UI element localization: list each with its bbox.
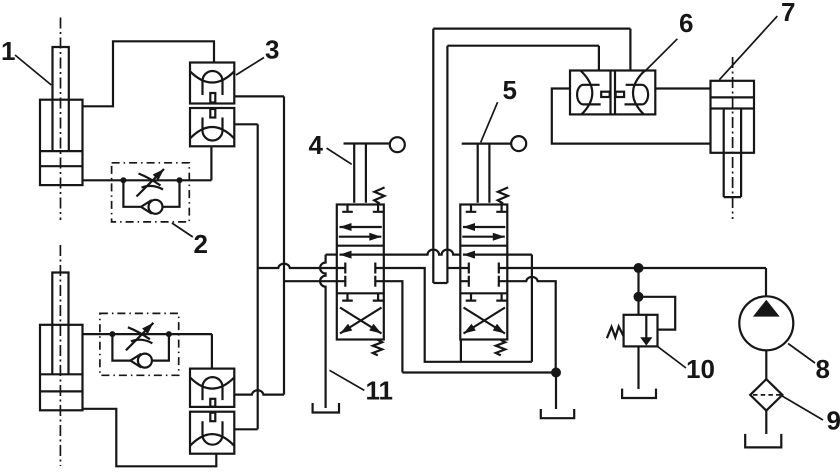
- tank relief: [622, 389, 656, 398]
- valve 5 bottom spring: [496, 340, 505, 356]
- valve 5 middle box blocked port T marks: [460, 263, 507, 287]
- wire valve5 lower right stub with hop: [507, 277, 555, 373]
- valve 4 bottom box blocked port T marks: [342, 293, 383, 300]
- valve 5 top box blocked port T marks: [466, 205, 507, 212]
- pilot operated check valve block 3b lower box: [190, 412, 234, 454]
- svg-text:8: 8: [816, 354, 830, 384]
- supply line valve5 to pump: [507, 267, 766, 269]
- leader line label 11: [330, 370, 365, 390]
- wire manifold to center tank: [555, 373, 557, 410]
- pilot operated check valve block 3 lower box: [190, 108, 234, 146]
- svg-text:2: 2: [194, 229, 208, 259]
- wire to block 3b top port: [211, 334, 213, 369]
- leader line label 6: [644, 39, 677, 72]
- svg-text:5: 5: [503, 75, 517, 105]
- wire block3 lower right port to vertical A: [234, 123, 257, 125]
- flow control valve 2 dashed enclosure: [112, 163, 190, 222]
- relief valve 10 flow arrow: [640, 315, 652, 346]
- valve 4 middle box blocked port T marks: [337, 263, 384, 287]
- throttle (adjustable restrictor) of unit 2: [137, 169, 165, 197]
- wire vertical B: [283, 96, 285, 394]
- node junction dot right of throttle 2b: [166, 331, 172, 337]
- relief valve 10 body: [624, 315, 658, 347]
- wire cylinder2 piston-side port to block 3b bottom port: [83, 409, 217, 467]
- cylinder 1 centerline: [60, 18, 62, 221]
- pilot operated check valve block 3 upper box: [190, 63, 234, 104]
- node junction dot right of throttle 2: [177, 177, 183, 183]
- cylinder 2 rod: [52, 273, 68, 375]
- valve 5 rail arrowhead: [463, 254, 507, 256]
- wire B bottom to block 3b upper right port with hop over A: [234, 390, 284, 394]
- inner over-wire to block 6: [447, 46, 599, 283]
- wire valve4 lower right stub to tank manifold: [384, 281, 403, 372]
- svg-text:3: 3: [265, 35, 279, 65]
- wire valve4 upper right stub down and across: [384, 268, 532, 362]
- leader line label 3: [236, 58, 264, 76]
- leader line label 2: [172, 223, 193, 237]
- wire A bottom to block 3b lower right port: [234, 428, 257, 430]
- wire valve4 lower left stub: [284, 280, 337, 282]
- pump 8: [739, 296, 793, 350]
- valve 5 top spring: [498, 187, 508, 203]
- valve 4 top spring: [374, 187, 384, 203]
- wire valve5 bottom left port: [460, 340, 462, 362]
- wire valve block 3 bottom port: [210, 146, 212, 180]
- tank center: [541, 409, 574, 418]
- valve 4 rail arrowhead: [340, 254, 384, 256]
- directional valve 4 body: [337, 205, 384, 340]
- pilot operated check valve block 3b upper box: [190, 369, 234, 407]
- block 6 left box internals: [577, 71, 610, 115]
- wire pump to filter: [765, 350, 767, 379]
- valve 5 top box flow arrows: [462, 227, 505, 237]
- valve 4 top box flow arrows: [339, 227, 382, 237]
- wire vertical A: [257, 124, 259, 429]
- wire valve4 upper left stub with hop over B: [258, 264, 337, 268]
- cylinder 2 centerline: [59, 245, 61, 466]
- wire cylinder1 piston-side port through flow control 2: [83, 179, 212, 181]
- valve 4 bottom box crossed arrows: [340, 308, 382, 334]
- svg-text:9: 9: [827, 406, 840, 436]
- valve 4 top box blocked port T marks: [342, 205, 383, 212]
- wire block3 upper right port to vertical B: [234, 95, 284, 97]
- junction dot supply to relief valve: [634, 263, 644, 273]
- wire relief valve outlet to tank: [637, 346, 639, 389]
- relief valve 10 pilot line: [639, 297, 676, 330]
- valve 5 bottom box crossed arrows: [464, 308, 506, 334]
- wire block6 left port loop to cylinder 7 rod side: [552, 89, 711, 144]
- leader line label 4: [327, 148, 352, 164]
- filter 9: [750, 379, 782, 410]
- cylinder 7 centerline: [732, 57, 734, 219]
- valve 4 bottom spring: [373, 340, 382, 356]
- outer over-wire valve4 to block 6: [433, 29, 630, 283]
- leader line label 5: [481, 102, 498, 142]
- relief valve 10 spring: [607, 326, 624, 338]
- wire cylinder2 rod-side port through flow control 2b: [83, 333, 212, 335]
- cylinder 1 rod: [53, 47, 69, 151]
- node junction dot left of throttle 2b: [109, 331, 115, 337]
- junction dot tank manifold: [551, 368, 561, 378]
- wire tank manifold horizontal: [402, 371, 556, 373]
- wire rail drop to tank 11 with hops: [320, 255, 325, 408]
- svg-text:10: 10: [686, 354, 715, 384]
- cylinder 1 body: [40, 100, 83, 185]
- wire cylinder1 rod-side port to valve block 3 top: [83, 41, 215, 106]
- leader line label 9: [781, 396, 823, 421]
- wire supply down to pump: [765, 268, 767, 297]
- valve 5 bottom box blocked port T marks: [466, 293, 507, 300]
- throttle (adjustable restrictor) of unit 2b: [126, 323, 153, 351]
- junction dot relief pilot: [634, 292, 644, 302]
- cylinder 7 rod: [724, 109, 741, 198]
- svg-text:1: 1: [1, 36, 15, 66]
- wire rail exit down right of valve5: [531, 255, 533, 362]
- valve 4 hand lever: [344, 137, 405, 203]
- flow control valve 2b dashed enclosure: [100, 313, 179, 375]
- valve 5 hand lever: [462, 136, 527, 203]
- bypass check valve of unit 2b: [112, 334, 168, 368]
- leader line label 8: [788, 344, 815, 364]
- tank filter suction: [745, 434, 781, 448]
- cylinder 7 body: [711, 81, 755, 153]
- cylinder 2 body: [40, 325, 83, 411]
- wire block6 right port to cylinder 7: [655, 87, 710, 89]
- svg-text:4: 4: [309, 130, 324, 160]
- wire stub to valve5 upper left: [447, 267, 460, 269]
- wire filter to tank: [765, 411, 767, 434]
- svg-text:6: 6: [679, 8, 693, 38]
- bypass check valve of unit 2: [123, 180, 179, 214]
- tank 11: [313, 403, 339, 413]
- wire supply to relief valve 10: [637, 268, 639, 315]
- leader line label 1: [15, 55, 51, 85]
- directional valve 5 body: [460, 205, 507, 340]
- leader line label 7: [719, 16, 777, 80]
- tank return rail with hops between valves: [326, 250, 532, 255]
- svg-text:11: 11: [366, 376, 394, 406]
- node junction dot left of throttle 2: [120, 177, 126, 183]
- pilot operated check valve block 6 body: [570, 71, 655, 115]
- svg-text:7: 7: [781, 0, 795, 27]
- leader line label 10: [658, 346, 687, 368]
- block 6 right box internals: [616, 71, 649, 115]
- wire jog joining verticals: [433, 282, 447, 284]
